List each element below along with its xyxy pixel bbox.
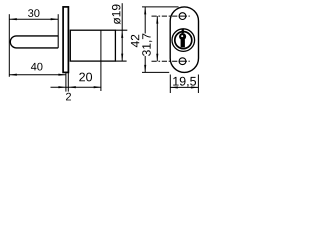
dimension 42 line bbox=[144, 7, 146, 73]
dimension 19,5 line bbox=[170, 86, 198, 88]
dimension 30 arrow right bbox=[51, 18, 59, 20]
dimension 19,5 right extension bbox=[197, 75, 199, 94]
plunger rod side view bbox=[10, 36, 58, 48]
dimension 42 text bbox=[131, 35, 139, 47]
dimension 2 text bbox=[66, 93, 71, 101]
plate back hanging extension bbox=[65, 73, 67, 92]
dimension 2 arrow pointing right bbox=[58, 86, 66, 88]
dimension 42 top extension bbox=[142, 6, 179, 8]
cylinder inner circle bbox=[175, 32, 192, 49]
lock body bbox=[70, 30, 115, 61]
keyhole silhouette bbox=[182, 29, 184, 33]
dimension 30 arrow left bbox=[9, 18, 16, 20]
dimension 2-20 shared line bbox=[51, 86, 102, 88]
dimension 42 arrow up bbox=[144, 7, 146, 14]
bottom hole centerline dashed bbox=[152, 60, 178, 62]
body section divider bbox=[100, 30, 102, 91]
dimension 20 text bbox=[79, 73, 92, 82]
extension line left bbox=[8, 14, 10, 77]
dimension 40 arrow left bbox=[9, 74, 16, 76]
dimension dia19 arrow up bbox=[121, 30, 123, 38]
dimension 31,7 halo bbox=[142, 34, 151, 57]
front plate stadium outline bbox=[170, 7, 198, 73]
rod end face bbox=[57, 36, 59, 48]
top hole centerline dashed bbox=[152, 15, 178, 17]
extension line rod end bbox=[57, 14, 59, 36]
dimension 19,5 left extension bbox=[169, 75, 171, 94]
keyhole white dot bbox=[181, 35, 183, 37]
dimension 40 line bbox=[9, 74, 66, 76]
dimension 42 bottom extension bbox=[142, 71, 169, 73]
dimension 42 arrow down bbox=[144, 65, 146, 73]
dimension dia19 text bbox=[112, 5, 121, 25]
dimension 40 text bbox=[31, 63, 43, 71]
body bottom edge extension bbox=[115, 60, 126, 62]
dimension 31,7 line bbox=[156, 16, 158, 61]
dimension 30 line bbox=[9, 18, 58, 20]
dimension 31,7 text bbox=[142, 34, 152, 56]
dimension dia19 line bbox=[121, 3, 123, 61]
body top edge extension bbox=[115, 29, 127, 31]
dimension 30 text bbox=[28, 9, 39, 17]
dimension 31,7 arrow down bbox=[156, 54, 158, 62]
dimension dia19 arrow down bbox=[121, 54, 123, 62]
dimension 19,5 arrow right bbox=[191, 86, 199, 88]
dimension 20 arrow right bbox=[94, 86, 102, 88]
dimension 31,7 arrow up bbox=[156, 16, 158, 24]
bottom screw hole bbox=[179, 58, 186, 65]
top screw hole bbox=[179, 13, 186, 20]
dimension 19,5 arrow left bbox=[170, 86, 178, 88]
body front hanging extension bbox=[67, 73, 69, 92]
dimension 19,5 text bbox=[173, 77, 196, 87]
cylinder outer circle bbox=[172, 29, 195, 52]
dimension 2-20 shared arrow pointing left bbox=[68, 86, 76, 88]
dimension 40 arrow right bbox=[58, 74, 66, 76]
face plate edge-on bbox=[63, 7, 68, 73]
